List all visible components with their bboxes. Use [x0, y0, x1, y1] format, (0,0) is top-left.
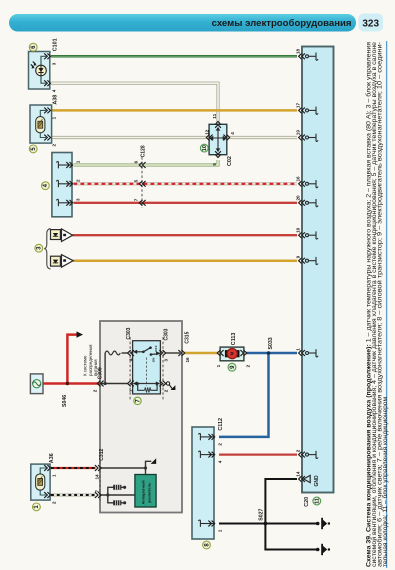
node S046 — [62, 382, 69, 407]
page number 323 — [359, 14, 384, 32]
svg-text:12: 12 — [204, 129, 209, 135]
wire: C02-4 to U11-19 (white) — [230, 136, 298, 139]
svg-text:C303: C303 — [126, 327, 132, 339]
svg-text:19: 19 — [295, 130, 300, 136]
svg-text:C128: C128 — [141, 145, 147, 157]
svg-text:A38: A38 — [53, 95, 59, 105]
label 8 (circled) — [203, 541, 211, 549]
sensor 3b (to pin 9) — [51, 255, 74, 268]
node S033 — [267, 337, 274, 355]
connector C303 right (dashed) — [163, 328, 170, 399]
relay coil — [133, 381, 160, 392]
svg-text:7: 7 — [95, 490, 100, 493]
svg-text:тельная колодка; 11 – блок упр: тельная колодка; 11 – блок управления ко… — [381, 397, 389, 567]
label 4 (circled) — [42, 182, 50, 190]
svg-text:2: 2 — [217, 443, 222, 446]
wire: sensor3a to U11-10 (red) — [73, 234, 298, 236]
svg-text:10: 10 — [202, 145, 208, 151]
right margin rule — [386, 41, 388, 568]
svg-text:2: 2 — [245, 364, 250, 367]
label 11 (circled) — [313, 497, 321, 505]
svg-text:3: 3 — [52, 62, 57, 65]
svg-text:1: 1 — [216, 364, 221, 367]
control unit U11 (блок управления кондиционером) — [302, 47, 334, 493]
svg-text:6: 6 — [133, 160, 138, 163]
svg-text:S027: S027 — [259, 508, 265, 520]
svg-text:C20: C20 — [304, 497, 310, 507]
arrow to power distribution system — [77, 331, 84, 337]
wire: C315 to C113-1 (yellow) — [184, 352, 218, 355]
ground G2 — [316, 544, 330, 555]
svg-text:17: 17 — [295, 103, 300, 109]
wire: Q8-4 to U11-2 (red) — [219, 453, 297, 455]
svg-text:10: 10 — [295, 227, 300, 233]
sensor group 3: brace — [44, 229, 50, 270]
relay K7 (реле) — [133, 341, 161, 394]
wire: C101-4 to C02-11 (white) — [51, 83, 218, 122]
svg-text:2: 2 — [295, 449, 300, 452]
GND pin symbol inside unit — [304, 475, 320, 487]
noise suppressor K1 — [113, 485, 126, 490]
svg-text:C309: C309 — [97, 367, 103, 379]
svg-text:4: 4 — [217, 460, 222, 463]
svg-text:3: 3 — [75, 198, 80, 201]
wire: A38-2 to C02-12 (white) — [51, 136, 207, 139]
label 1 (circled) — [33, 503, 41, 511]
junction block C02 — [209, 124, 227, 154]
svg-text:усилитель: усилитель — [146, 482, 151, 503]
noise suppressor K2 — [113, 500, 126, 505]
connector C312 — [95, 449, 105, 501]
svg-text:C112: C112 — [218, 418, 224, 431]
fusible link 2 — [30, 374, 43, 394]
svg-text:5: 5 — [212, 163, 217, 166]
caption (rotated, right margin) — [365, 41, 389, 567]
node S027 — [259, 508, 268, 525]
label 3 (circled) — [35, 244, 43, 252]
svg-text:11: 11 — [315, 498, 321, 504]
svg-text:1: 1 — [52, 474, 57, 477]
module (heater/AC unit assembly, gray box) — [100, 321, 182, 513]
svg-text:M: M — [230, 351, 235, 355]
wire: fusible link F2 to C309 with branch to power system (red) — [41, 335, 101, 384]
sensor 3a (to pin 10) — [51, 229, 73, 242]
label 6 (circled) — [29, 43, 37, 51]
svg-text:1: 1 — [295, 348, 300, 351]
header bar — [9, 14, 356, 32]
svg-text:1: 1 — [129, 389, 134, 392]
svg-text:1: 1 — [75, 160, 80, 163]
wire: sensor3b to U11-9 (yellow) — [73, 259, 297, 262]
svg-text:схемы электрооборудования: схемы электрооборудования — [212, 18, 352, 29]
svg-text:2: 2 — [164, 389, 169, 392]
svg-text:2: 2 — [93, 389, 98, 392]
label 10 (circled) — [200, 144, 208, 152]
svg-text:7: 7 — [133, 198, 138, 201]
svg-text:C113: C113 — [231, 333, 237, 346]
wire: sensor4-2 via C128-5 to U11-16 (red dashed) — [74, 182, 298, 185]
cabin temperature sensor A38 — [30, 105, 52, 143]
svg-text:C02: C02 — [227, 156, 233, 166]
relay pin numbers — [129, 358, 169, 392]
wire: C113-2 to S033 to U11-1 and to Q8-2 (blue) — [219, 353, 297, 437]
wire: A36-1 to C312-14 (red/black dashed) — [51, 467, 96, 469]
sun/light sensor C101 — [29, 52, 50, 90]
wire: C101-3 to U11-18 (green) — [51, 55, 297, 58]
blower motor C113 — [220, 347, 244, 361]
svg-text:Аппаратный: Аппаратный — [141, 480, 146, 505]
svg-text:ON: ON — [151, 357, 155, 362]
svg-text:A36: A36 — [49, 453, 55, 463]
svg-text:1: 1 — [52, 116, 57, 119]
svg-text:4: 4 — [52, 89, 57, 92]
control unit pins — [299, 53, 318, 482]
connector C309 — [93, 367, 104, 392]
svg-text:2: 2 — [52, 501, 57, 504]
svg-text:S033: S033 — [268, 337, 274, 349]
connector C303 left (dashed) — [126, 327, 132, 399]
svg-text:S046: S046 — [62, 395, 68, 407]
relay pin chevrons — [128, 350, 134, 356]
ground G1 — [316, 518, 330, 529]
connector C315 — [178, 331, 190, 362]
svg-text:2: 2 — [52, 144, 57, 147]
svg-text:C315: C315 — [184, 331, 190, 343]
chassis bolt symbol at C312-14 branch — [151, 458, 157, 464]
svg-text:1: 1 — [217, 529, 222, 532]
module internal wiring (relay feed) — [100, 353, 180, 384]
amplifier block (green box) — [135, 475, 156, 508]
svg-text:C303: C303 — [164, 328, 170, 340]
control unit pin numbers — [295, 48, 300, 476]
svg-text:14: 14 — [295, 471, 300, 477]
chassis bolt symbol at relay pin 2 — [166, 382, 175, 390]
svg-text:11: 11 — [212, 113, 217, 118]
svg-text:16: 16 — [185, 357, 190, 363]
svg-text:14: 14 — [95, 474, 100, 480]
svg-text:5: 5 — [133, 179, 138, 182]
label К системе распределения питания — [83, 344, 98, 376]
fusible link inside module — [105, 351, 120, 355]
power transistor Q8 (box) — [192, 427, 214, 539]
svg-text:9: 9 — [295, 255, 300, 258]
pressure sensor 4 (box) — [52, 153, 72, 217]
wire: sensor4-1 via C128-6 to C02-5 (light green) — [74, 160, 219, 165]
connector C128 — [133, 145, 146, 208]
wire: U11-14 GND / Q8-1 to grounds (black) — [219, 479, 318, 550]
svg-text:4: 4 — [230, 132, 235, 135]
label 7 (circled) — [134, 397, 142, 404]
label 5 (circled) — [29, 145, 37, 153]
wire: sensor4-3 via C128-7 to U11-20 (red) — [74, 202, 298, 204]
svg-text:323: 323 — [362, 19, 379, 30]
svg-text:4: 4 — [129, 358, 134, 361]
svg-text:C101: C101 — [53, 38, 59, 51]
svg-text:C312: C312 — [99, 449, 105, 461]
svg-text:2: 2 — [75, 179, 80, 182]
module internal wiring (bottom section) — [100, 461, 151, 503]
svg-text:16: 16 — [295, 176, 300, 182]
svg-text:3: 3 — [164, 359, 169, 362]
svg-text:18: 18 — [295, 48, 300, 54]
svg-text:GND: GND — [314, 475, 320, 487]
relay switch contact — [133, 345, 160, 386]
wire: A36-2 to C312-7 (white/black dashed) — [51, 494, 96, 497]
svg-text:20: 20 — [295, 195, 300, 201]
outside air temperature sensor A36 — [31, 464, 50, 500]
svg-text:OFF: OFF — [154, 345, 158, 351]
wire: A38-1 to U11-17 (yellow) — [51, 109, 297, 112]
label 9 (circled) — [228, 363, 236, 371]
